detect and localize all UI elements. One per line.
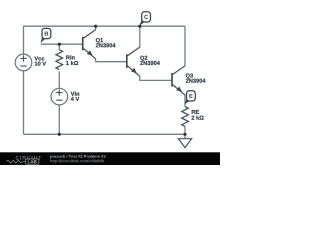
wire Q2 emitter to Q3 base bbox=[140, 76, 172, 80]
label Vcc bbox=[34, 57, 44, 61]
wire Q3 emitter to RE bbox=[184, 95, 186, 107]
CircuitLab logo bbox=[16, 156, 42, 160]
node flag C bbox=[139, 17, 146, 26]
wire Q1 collector stub bbox=[95, 26, 97, 29]
resistor RE 2k bbox=[182, 107, 189, 127]
transistor Q3 2N3904 bbox=[171, 73, 173, 87]
wire Q1 emitter to Q2 base bbox=[96, 59, 127, 62]
node flag E bbox=[184, 96, 190, 104]
transistor Q2 2N3904 bbox=[126, 54, 128, 68]
wire bottom rail bbox=[24, 133, 186, 135]
node junction dots bbox=[94, 25, 97, 28]
ground bbox=[178, 139, 191, 148]
label RE bbox=[192, 110, 199, 114]
wire Q2 collector vertical bbox=[139, 26, 141, 47]
wire left vertical Vcc branch bbox=[23, 26, 25, 135]
wire top rail bbox=[24, 25, 186, 27]
label Rin bbox=[66, 55, 74, 59]
footer credit text bbox=[50, 155, 106, 159]
label Q2 bbox=[140, 56, 147, 61]
voltage source Vcc 10V bbox=[15, 54, 32, 71]
node flag B bbox=[41, 34, 47, 44]
wire node B to Q1 base bbox=[41, 43, 83, 45]
watermark footer bar bbox=[0, 152, 220, 165]
wire RE to ground node bbox=[184, 126, 186, 138]
resistor Rin 1k bbox=[56, 50, 63, 70]
label Vin bbox=[71, 92, 80, 96]
label Q1 bbox=[96, 38, 103, 43]
wire Q3 collector vertical bbox=[184, 26, 186, 66]
voltage source Vin 4V bbox=[51, 88, 68, 105]
transistor Q1 2N3904 bbox=[82, 37, 84, 51]
wire Rin Vin column bbox=[58, 44, 60, 134]
label Q3 bbox=[186, 74, 193, 79]
